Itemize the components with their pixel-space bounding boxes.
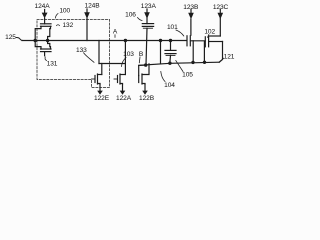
svg-text:105: 105: [182, 72, 193, 79]
transistor 103a (122E) in box 133: [92, 64, 102, 85]
dashed box 100 outline with notch (block 100 / 133): [37, 20, 110, 88]
wire: node B rail: [139, 62, 219, 65]
label 132 with tilde: [57, 24, 60, 27]
transistor 104/122B: [139, 64, 149, 84]
capacitor 105: [165, 41, 176, 64]
svg-text:123B: 123B: [183, 4, 199, 11]
node dot A-wire at x125: [124, 39, 127, 42]
wire: right corner down to node B rail (output 121): [219, 42, 222, 63]
terminal arrow 123B: [188, 10, 194, 20]
svg-text:B: B: [139, 51, 144, 58]
node dot B rail cap106: [144, 63, 147, 66]
wire: vertical 104 from A-wire down to node-B rail: [160, 41, 162, 64]
node dot B rail right 2: [203, 61, 206, 64]
transistor 103b (122A): [114, 74, 125, 84]
svg-text:122E: 122E: [94, 95, 110, 102]
svg-text:123C: 123C: [213, 4, 229, 11]
node dot A-wire at x170: [169, 39, 172, 42]
wire: main wire after Q102 to right corner: [209, 41, 223, 43]
terminal arrow 124B: [84, 9, 90, 41]
terminal arrow 122A: [120, 84, 126, 95]
terminal arrow 122B: [142, 84, 148, 95]
transistor 102: [204, 36, 220, 62]
node dot B rail cap105: [168, 62, 171, 65]
node dot B rail right 1: [191, 61, 194, 64]
terminal arrow 123A: [144, 9, 150, 19]
svg-text:132: 132: [62, 22, 73, 29]
node 125 input hook: [17, 38, 24, 41]
svg-text:121: 121: [224, 53, 235, 60]
svg-text:104: 104: [164, 82, 175, 89]
terminal arrow 123C: [218, 10, 224, 37]
svg-text:124A: 124A: [35, 3, 51, 10]
svg-text:122B: 122B: [139, 95, 155, 102]
svg-text:103: 103: [123, 51, 134, 58]
svg-text:131: 131: [47, 61, 58, 68]
wire: main wire right segment between Q101 and Q102: [191, 40, 206, 42]
svg-text:124B: 124B: [85, 3, 101, 10]
transistor 131 (lower pass transistor): [35, 41, 51, 56]
svg-text:125: 125: [5, 34, 16, 41]
terminal arrow 122E: [97, 84, 103, 95]
wire: main horizontal node-A wire y=40: [22, 40, 187, 42]
label 131 pointer: [45, 57, 46, 61]
node dot A-wire at x160: [159, 39, 162, 42]
svg-text:102: 102: [204, 29, 215, 36]
wire: node B corner down to gate of 122B transistor: [139, 65, 146, 76]
transistor 132 (upper pass transistor): [35, 18, 51, 40]
wire: vertical from A-wire down to 122A transistor drain: [124, 41, 126, 75]
svg-text:123A: 123A: [141, 3, 157, 10]
wire: vertical from A-wire down to drain bus: [98, 41, 100, 64]
capacitor 106: [142, 18, 153, 66]
svg-text:122A: 122A: [116, 95, 132, 102]
terminal arrow 124A: [42, 10, 48, 19]
svg-text:133: 133: [76, 47, 87, 54]
transistor 101: [187, 19, 193, 62]
svg-text:106: 106: [125, 12, 136, 19]
wire: drain bus joining T1 T2 drains: [99, 63, 125, 65]
svg-text:100: 100: [59, 8, 70, 15]
node dot left pair on main wire: [34, 39, 37, 42]
